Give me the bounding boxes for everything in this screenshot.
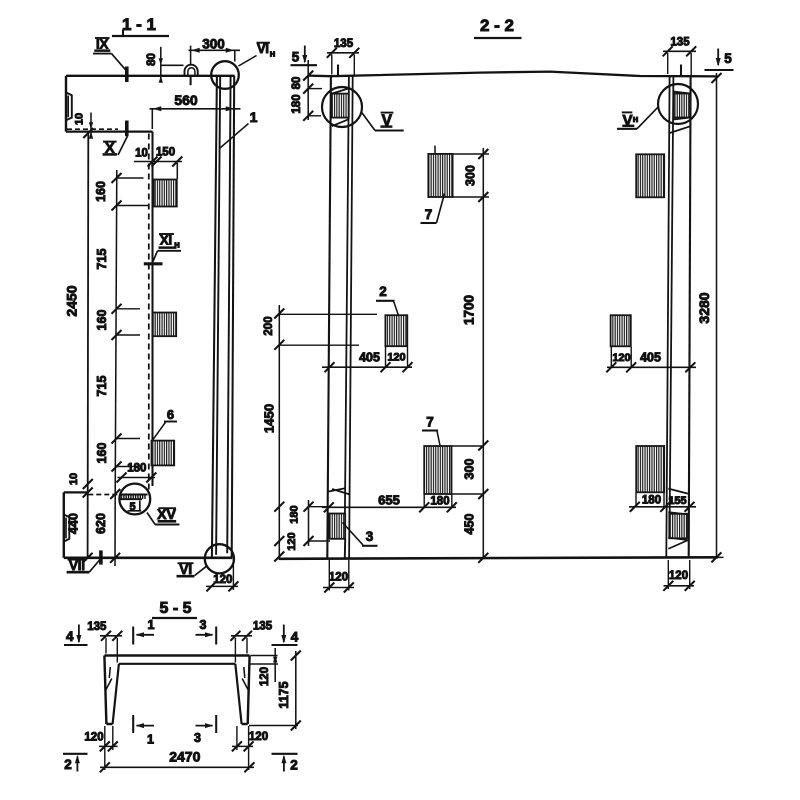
svg-text:450: 450 xyxy=(463,514,477,535)
svg-text:620: 620 xyxy=(94,513,108,534)
svg-text:10: 10 xyxy=(68,473,80,485)
svg-text:180: 180 xyxy=(288,505,300,523)
svg-text:135: 135 xyxy=(670,37,690,49)
svg-text:160: 160 xyxy=(95,443,109,464)
svg-text:120: 120 xyxy=(329,572,348,584)
svg-text:10: 10 xyxy=(74,113,86,125)
svg-text:120: 120 xyxy=(84,732,103,744)
svg-text:300: 300 xyxy=(464,165,478,186)
svg-text:1: 1 xyxy=(250,109,258,125)
svg-text:4: 4 xyxy=(291,630,299,645)
svg-text:1: 1 xyxy=(147,733,154,747)
svg-text:3280: 3280 xyxy=(696,292,712,323)
svg-text:80: 80 xyxy=(291,77,303,90)
svg-text:160: 160 xyxy=(95,310,109,331)
svg-text:1700: 1700 xyxy=(462,295,477,325)
svg-text:200: 200 xyxy=(263,316,275,335)
svg-text:405: 405 xyxy=(640,351,661,365)
svg-text:2450: 2450 xyxy=(64,285,80,316)
svg-text:10: 10 xyxy=(135,148,148,160)
svg-text:7: 7 xyxy=(425,207,433,222)
svg-text:155: 155 xyxy=(668,495,686,507)
svg-text:120: 120 xyxy=(612,352,630,364)
svg-text:655: 655 xyxy=(378,493,400,508)
svg-text:7: 7 xyxy=(426,415,434,430)
svg-text:1175: 1175 xyxy=(277,681,291,708)
svg-text:180: 180 xyxy=(291,94,303,113)
svg-text:5: 5 xyxy=(724,51,732,66)
svg-text:120: 120 xyxy=(249,731,268,743)
svg-text:3: 3 xyxy=(200,618,207,632)
svg-text:1450: 1450 xyxy=(261,404,276,433)
svg-text:80: 80 xyxy=(146,53,158,66)
svg-text:180: 180 xyxy=(127,463,146,475)
svg-text:3: 3 xyxy=(194,731,201,745)
svg-text:120: 120 xyxy=(286,532,298,550)
svg-text:160: 160 xyxy=(94,181,108,202)
svg-text:3: 3 xyxy=(366,529,374,544)
svg-text:4: 4 xyxy=(66,629,74,644)
svg-text:715: 715 xyxy=(95,249,109,270)
svg-text:120: 120 xyxy=(259,667,271,686)
svg-text:6: 6 xyxy=(167,407,174,422)
svg-text:135: 135 xyxy=(334,38,354,50)
svg-text:н: н xyxy=(633,114,639,125)
svg-text:715: 715 xyxy=(95,376,109,397)
svg-text:135: 135 xyxy=(87,621,107,633)
svg-text:1 - 1: 1 - 1 xyxy=(122,15,156,34)
svg-text:2470: 2470 xyxy=(169,748,200,764)
svg-text:2 - 2: 2 - 2 xyxy=(480,16,514,35)
svg-text:120: 120 xyxy=(213,574,232,586)
svg-text:5 - 5: 5 - 5 xyxy=(159,600,191,617)
svg-text:120: 120 xyxy=(387,352,405,364)
svg-text:300: 300 xyxy=(202,37,225,52)
svg-text:135: 135 xyxy=(253,621,273,633)
svg-text:н: н xyxy=(174,240,180,251)
svg-text:150: 150 xyxy=(156,147,175,159)
svg-text:2: 2 xyxy=(64,757,72,772)
svg-text:VI: VI xyxy=(257,42,269,56)
svg-text:300: 300 xyxy=(463,459,477,480)
svg-text:180: 180 xyxy=(642,495,661,507)
svg-text:5: 5 xyxy=(292,50,300,65)
svg-text:2: 2 xyxy=(379,284,387,299)
svg-text:180: 180 xyxy=(430,496,449,508)
svg-text:2: 2 xyxy=(290,758,298,773)
svg-text:1: 1 xyxy=(148,618,155,632)
svg-text:н: н xyxy=(270,49,276,60)
svg-text:560: 560 xyxy=(174,92,198,108)
svg-text:405: 405 xyxy=(359,351,380,365)
svg-text:120: 120 xyxy=(669,570,688,582)
